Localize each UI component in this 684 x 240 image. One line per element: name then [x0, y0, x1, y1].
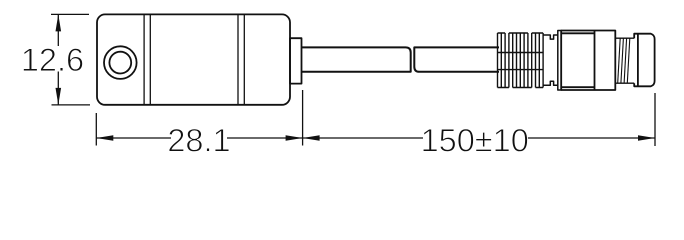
thread line 4: [627, 38, 630, 83]
connector barrel: [561, 31, 615, 91]
cable left segment with break: [302, 47, 411, 71]
connector collar: [543, 35, 558, 85]
band line 3: [237, 14, 239, 104]
svg-text:28.1: 28.1: [167, 122, 230, 158]
svg-text:150±10: 150±10: [421, 122, 529, 158]
svg-text:12.6: 12.6: [21, 42, 84, 78]
extension line top left: [51, 13, 89, 15]
extension line cap end: [654, 93, 656, 146]
cable right segment with break: [414, 47, 499, 71]
end cap inner line: [637, 34, 639, 87]
cable gland: [290, 38, 302, 83]
band line 1: [143, 14, 145, 104]
connector flange rib: [558, 31, 561, 91]
vertical dimension line upper: [57, 14, 59, 46]
arrow left 28.1: [96, 135, 113, 141]
dimension line 150 left part: [303, 137, 423, 139]
extension line body left: [95, 113, 97, 146]
thread line 2: [621, 38, 624, 83]
mounting hole outer circle: [104, 46, 137, 79]
sensor body: [97, 14, 290, 104]
vertical dimension line lower: [57, 72, 59, 105]
dimension line 150 right part: [527, 137, 656, 139]
thread section outline: [615, 38, 634, 83]
extension line gland: [302, 90, 304, 146]
barrel inner line: [594, 31, 596, 91]
band line 2: [149, 14, 151, 104]
thread line 1: [618, 38, 621, 83]
arrow right 150: [638, 135, 655, 141]
dimension line 28.1 right part: [227, 137, 303, 139]
arrow up 12.6: [56, 14, 62, 31]
arrow down 12.6: [56, 88, 62, 105]
extension line bottom left: [52, 104, 91, 106]
strain relief bellows: [498, 33, 544, 88]
barrel inset bottom line: [561, 86, 594, 88]
mounting hole inner circle: [109, 52, 131, 74]
barrel inset top line: [561, 32, 594, 34]
end cap: [634, 34, 654, 87]
dimension line 28.1 left part: [96, 137, 171, 139]
band line 4: [243, 14, 245, 104]
arrow right 28.1: [286, 135, 303, 141]
thread line 3: [624, 38, 627, 83]
arrow left 150: [303, 135, 320, 141]
